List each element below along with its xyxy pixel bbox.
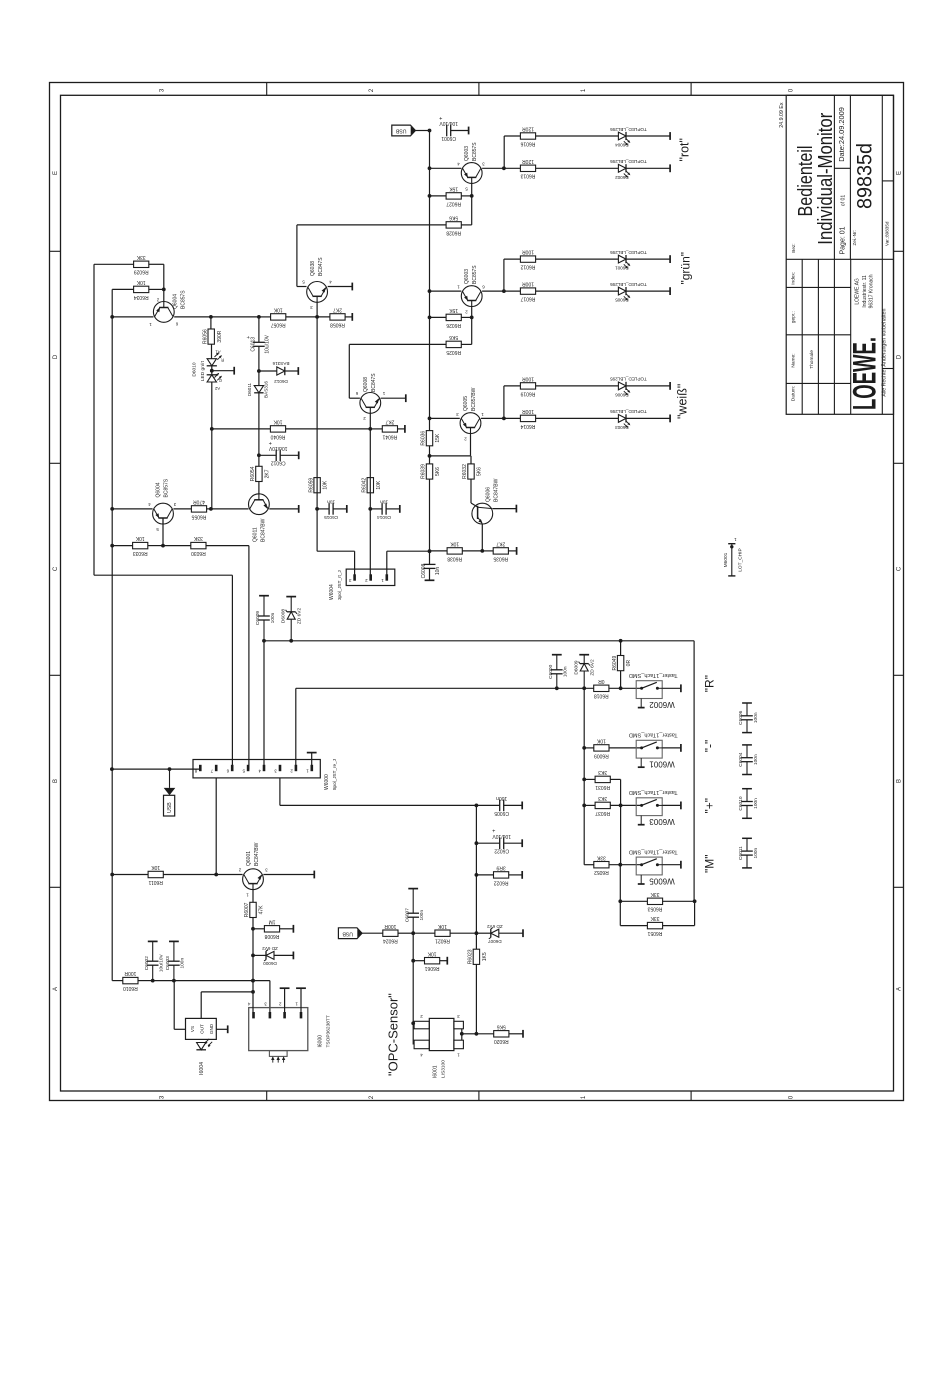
svg-text:D6002: D6002: [615, 175, 629, 180]
svg-text:D6004: D6004: [615, 143, 629, 148]
svg-text:W6002: W6002: [649, 700, 675, 709]
capacitor C6002 (10u/10V): [144, 941, 165, 980]
wire: [252, 955, 254, 980]
wire: [211, 366, 213, 375]
junction: [411, 931, 415, 935]
wire: [333, 508, 347, 510]
svg-text:D6012: D6012: [274, 379, 288, 384]
svg-text:C6009: C6009: [255, 611, 261, 625]
ground: [669, 287, 671, 295]
wire: [626, 290, 670, 292]
svg-text:LIS3100: LIS3100: [441, 1060, 447, 1078]
svg-text:BAS316: BAS316: [264, 381, 269, 398]
junction: [209, 507, 213, 511]
net flag USB: [338, 928, 362, 939]
junction: [110, 544, 114, 548]
svg-text:D6010: D6010: [191, 362, 197, 376]
LED D6004 (TOPLED_LBL295): [610, 127, 647, 148]
ground: [259, 595, 269, 597]
svg-text:10n: 10n: [435, 567, 441, 576]
wire: [440, 960, 448, 962]
svg-text:100R: 100R: [124, 970, 136, 976]
svg-text:"R": "R": [703, 675, 717, 692]
wire: [536, 385, 619, 387]
svg-text:LED gn/rt: LED gn/rt: [200, 360, 206, 381]
wire: [451, 130, 469, 132]
wire: [504, 385, 521, 387]
svg-text:100n: 100n: [753, 754, 759, 765]
wire Q6008 base: [369, 413, 371, 429]
svg-text:GND: GND: [209, 1023, 214, 1034]
capacitor C6009 (100n): [255, 596, 276, 641]
svg-text:5K6: 5K6: [435, 467, 441, 476]
svg-text:Q6006: Q6006: [486, 487, 492, 502]
wire pin2 net vertical: [369, 429, 371, 579]
wire Q6038 base: [316, 303, 318, 317]
ground: [521, 802, 523, 810]
wire: [206, 545, 249, 547]
svg-text:TOPLED_LBL295: TOPLED_LBL295: [610, 159, 647, 164]
resistor R6030 (33K): [191, 535, 206, 556]
svg-text:Bedienteil: Bedienteil: [795, 146, 817, 217]
wire Q6003 emitter: [430, 167, 462, 169]
svg-text:+: +: [246, 336, 252, 339]
ground: [680, 744, 682, 752]
wire: [536, 258, 619, 260]
resistor R6035 (2K7): [493, 541, 508, 562]
junction: [502, 166, 506, 170]
resistor R6020 (5K6): [494, 1023, 509, 1044]
wire: [258, 393, 260, 456]
svg-text:R6016: R6016: [520, 140, 535, 146]
wire D6010 to row2: [211, 382, 213, 429]
wire: [297, 286, 307, 288]
svg-text:100n: 100n: [496, 795, 507, 801]
svg-text:470R: 470R: [193, 499, 205, 505]
diode D6012 (BAS316): [272, 361, 289, 384]
svg-text:100R: 100R: [384, 923, 396, 929]
wire: [258, 346, 260, 371]
wire: [504, 135, 520, 137]
wire rail1 (R6029 net): [93, 264, 95, 575]
svg-text:5K6: 5K6: [449, 214, 458, 220]
wire W6000 pin4 riser: [263, 641, 265, 770]
svg-text:96317 Kronach: 96317 Kronach: [869, 274, 875, 308]
wire: [163, 545, 191, 547]
junction: [162, 288, 166, 292]
wire: [482, 167, 504, 169]
capacitor C6006 (100n): [738, 703, 759, 733]
svg-text:2K7: 2K7: [385, 419, 394, 425]
ground: [292, 925, 294, 933]
svg-text:C6000: C6000: [548, 664, 554, 678]
svg-text:Q6003: Q6003: [464, 269, 470, 284]
junction: [257, 315, 261, 319]
wire: [470, 446, 472, 456]
resistor R6018 (0R): [594, 678, 609, 699]
svg-text:R6057: R6057: [271, 321, 286, 327]
wire: [476, 932, 490, 934]
ground: [399, 505, 401, 513]
capacitor C6022 (10u/10V): [492, 827, 511, 853]
svg-text:+: +: [492, 827, 495, 833]
wire I6001 right pins: [461, 1029, 463, 1040]
svg-text:10K: 10K: [596, 738, 606, 744]
ground: [521, 839, 523, 847]
wire: [362, 932, 383, 934]
wire IC6000 pin1 stub: [300, 988, 302, 1012]
wire R6009 row: [584, 747, 594, 749]
junction: [460, 1032, 464, 1036]
wire long vertical to R6053: [693, 641, 695, 902]
ground: [346, 505, 348, 513]
wire Q6008 collector riser: [348, 344, 350, 398]
wire: [94, 263, 134, 265]
wire: [211, 316, 259, 318]
svg-text:R6054: R6054: [250, 466, 256, 481]
wire: [610, 778, 620, 780]
wire W6000 pin2 riser: [295, 688, 297, 769]
net flag USB (keypad): [164, 769, 176, 816]
svg-text:+: +: [269, 439, 272, 445]
wire: [476, 842, 499, 844]
svg-text:TOPLED_LBL295: TOPLED_LBL295: [610, 250, 647, 255]
svg-text:1M: 1M: [269, 918, 276, 924]
svg-text:R6042: R6042: [362, 478, 368, 493]
svg-text:Taster_1Tach_SMD: Taster_1Tach_SMD: [629, 732, 678, 738]
junction: [210, 427, 214, 431]
wire: [253, 928, 264, 930]
svg-text:R6021: R6021: [435, 938, 450, 944]
svg-text:120R: 120R: [522, 158, 534, 164]
svg-text:R6038: R6038: [447, 555, 462, 561]
resistor R6042 (10K): [362, 478, 382, 493]
svg-text:R6056: R6056: [202, 329, 208, 344]
capacitor C6004 (100n): [738, 745, 759, 775]
wire R6049 bottom: [620, 671, 622, 689]
transistor Q6003 (BC857S): [457, 142, 485, 192]
ground: [405, 394, 407, 402]
wire Q6003b emitter: [430, 290, 462, 292]
wire: [536, 417, 619, 419]
wire Q6038 emitter: [328, 286, 353, 288]
svg-text:USB: USB: [342, 930, 353, 936]
svg-text:A: A: [897, 987, 903, 991]
wire: [174, 1028, 185, 1030]
junction: [428, 166, 432, 170]
svg-text:LOEWE.: LOEWE.: [847, 337, 883, 410]
ground: [148, 940, 158, 942]
wire: [626, 258, 670, 260]
svg-text:C: C: [53, 566, 59, 571]
svg-text:C6022: C6022: [494, 848, 509, 854]
wire: [504, 290, 521, 292]
wire collector riser rot: [503, 136, 505, 168]
wire to R6053 node: [619, 865, 621, 902]
svg-text:I6001: I6001: [433, 1065, 439, 1078]
ground: [298, 505, 300, 513]
wire: [471, 317, 473, 344]
resistor R6034 (10K): [134, 279, 149, 300]
ground: [669, 382, 671, 390]
wire Q6006 collector: [493, 508, 517, 510]
svg-text:VS: VS: [190, 1026, 195, 1032]
wire: [509, 1033, 523, 1035]
svg-text:Zei.-Nr:: Zei.-Nr:: [852, 230, 857, 245]
svg-text:Individual-Monitor: Individual-Monitor: [815, 112, 837, 244]
wire: [252, 918, 254, 929]
svg-text:Q6008: Q6008: [363, 377, 369, 392]
wire: [476, 874, 493, 876]
resistor R6029 (33K): [134, 254, 149, 275]
svg-text:B: B: [897, 779, 903, 783]
svg-text:3R9: 3R9: [496, 865, 505, 871]
junction: [315, 315, 319, 319]
svg-text:5K6: 5K6: [497, 1023, 506, 1029]
wire: [462, 1033, 477, 1035]
resistor R6017 (100R): [520, 281, 535, 302]
wire: [112, 545, 132, 547]
svg-text:R6018: R6018: [594, 693, 609, 699]
capacitor C6011 (100n): [738, 838, 759, 868]
wire W6000 pin1 stub: [311, 753, 313, 770]
svg-text:10K: 10K: [437, 923, 447, 929]
wire: [499, 932, 523, 934]
svg-text:33K: 33K: [650, 915, 660, 921]
junction: [257, 369, 261, 373]
svg-text:R6026: R6026: [446, 322, 461, 328]
svg-text:C6002: C6002: [144, 956, 150, 970]
svg-text:100n: 100n: [270, 612, 276, 623]
junction: [475, 931, 479, 935]
svg-text:W6000: W6000: [324, 774, 330, 790]
capacitor C6013: [246, 334, 270, 353]
svg-text:C6004: C6004: [738, 752, 744, 766]
wire IC6000 pin4 stub: [252, 981, 254, 1012]
wire R6051 loop left: [619, 901, 621, 925]
junction: [582, 746, 586, 750]
svg-text:R6019: R6019: [520, 390, 535, 396]
svg-text:R6035: R6035: [493, 555, 508, 561]
IC I6004 (light sensor): [186, 1018, 217, 1039]
svg-text:R6030: R6030: [191, 550, 206, 556]
wire: [504, 258, 521, 260]
wire: [430, 316, 447, 318]
capacitor C6015 (10n): [324, 499, 338, 520]
photodiode of I6004: [196, 1039, 212, 1075]
wire: [626, 417, 670, 419]
svg-text:100n: 100n: [753, 847, 759, 858]
wire R6031 to W6003 node: [620, 779, 622, 805]
transistor Q6006 (BC847BW): [472, 478, 500, 524]
ground: [404, 425, 406, 433]
capacitor C6010 (100n): [738, 789, 759, 819]
wire: [662, 864, 681, 866]
svg-text:C6001: C6001: [441, 135, 456, 141]
svg-text:100n: 100n: [753, 798, 759, 809]
wire Q6006 base: [470, 479, 472, 503]
resistor R6024 (100R): [383, 923, 398, 944]
zener diode D6000 (ZD 6V2): [262, 946, 278, 966]
svg-text:BC857S: BC857S: [181, 290, 187, 309]
svg-text:TOPLED_LBL295: TOPLED_LBL295: [610, 377, 647, 382]
svg-text:R6027: R6027: [446, 200, 461, 206]
junction: [368, 427, 372, 431]
svg-text:TOPLED_LBL295: TOPLED_LBL295: [610, 282, 647, 287]
wire: [504, 167, 521, 169]
svg-text:A1: A1: [215, 350, 221, 355]
svg-text:100R: 100R: [522, 249, 534, 255]
resistor R6010 (100R): [123, 970, 138, 991]
transistor Q6004 (BC857S): [149, 290, 187, 327]
wire: [662, 747, 681, 749]
svg-text:Thomale: Thomale: [809, 350, 815, 369]
svg-text:G: G: [219, 378, 222, 383]
svg-text:C6010: C6010: [738, 796, 744, 810]
transistor Q6038 (BC847S): [302, 257, 332, 310]
wire rail1 bend: [94, 574, 232, 576]
svg-text:W6003: W6003: [649, 817, 675, 826]
svg-text:15K: 15K: [449, 185, 459, 191]
wire: [259, 370, 277, 372]
svg-text:R6014: R6014: [520, 423, 535, 429]
svg-text:10K: 10K: [136, 279, 146, 285]
wire W6000 pin7 down: [215, 778, 217, 875]
ground: [297, 367, 299, 375]
wire: [387, 550, 430, 552]
junction: [582, 686, 586, 690]
wire: [148, 545, 163, 547]
svg-text:C: C: [897, 566, 903, 571]
ground: [669, 132, 671, 140]
ground: [298, 451, 300, 459]
svg-text:47K: 47K: [259, 905, 265, 915]
resistor R6039 (5K6): [421, 464, 441, 479]
resistor R6022 (3R9): [494, 865, 509, 886]
svg-text:Bez:: Bez:: [791, 243, 796, 252]
wire: [253, 954, 266, 956]
svg-text:"weiß": "weiß": [676, 384, 690, 419]
svg-text:I6004: I6004: [199, 1062, 205, 1075]
svg-text:R6034: R6034: [134, 294, 149, 300]
svg-text:Var.:89835d: Var.:89835d: [884, 221, 889, 246]
wire: [461, 224, 471, 226]
junction: [470, 194, 474, 198]
svg-text:100R: 100R: [522, 408, 534, 414]
wire: [280, 454, 299, 456]
wire rot control (crosses bus): [297, 224, 446, 226]
ground: [296, 987, 306, 989]
svg-text:Taster_1Tach_SMD: Taster_1Tach_SMD: [629, 672, 678, 678]
svg-text:10K: 10K: [135, 535, 145, 541]
wire R6051 loop right: [694, 901, 696, 925]
resistor R6023 (1K5): [468, 949, 488, 964]
LED D6010 (LED gn/rt, red half): [207, 350, 224, 366]
wire R6023 to I6001: [475, 964, 477, 1033]
junction: [480, 549, 484, 553]
svg-text:10K: 10K: [376, 480, 382, 490]
wire: [252, 929, 254, 956]
svg-text:BC857S: BC857S: [472, 265, 478, 284]
svg-text:120R: 120R: [522, 126, 534, 132]
svg-text:D6007: D6007: [488, 939, 502, 944]
svg-text:C6011: C6011: [738, 846, 744, 860]
svg-text:BAS316: BAS316: [272, 361, 289, 366]
svg-text:ZD 6V2: ZD 6V2: [262, 946, 278, 951]
wire: [259, 454, 276, 456]
junction: [619, 639, 623, 643]
junction: [289, 639, 293, 643]
resistor R6051 (33K): [647, 915, 662, 936]
svg-text:5K6: 5K6: [449, 334, 458, 340]
resistor R6014 (100R): [520, 408, 535, 429]
svg-text:R6055: R6055: [191, 513, 206, 519]
ground: [233, 367, 235, 375]
wire: [610, 804, 642, 806]
svg-text:100R: 100R: [522, 281, 534, 287]
wire: [504, 417, 521, 419]
svg-text:Index:: Index:: [791, 272, 797, 285]
junction: [618, 863, 622, 867]
wire R6037 row: [584, 804, 595, 806]
switch W6002 (Taster_1Tach_SMD): [629, 672, 678, 709]
wire: [430, 550, 448, 552]
svg-text:R6010: R6010: [123, 985, 138, 991]
wire: [201, 991, 253, 993]
wire bus R6036-R6039: [429, 446, 431, 464]
svg-text:ZD 6V2: ZD 6V2: [487, 924, 503, 929]
junction: [411, 1021, 415, 1025]
switch W6001 (Taster_1Tach_SMD): [629, 732, 678, 769]
svg-text:Q6004: Q6004: [173, 294, 179, 309]
wire rail2 (R6034 net): [111, 289, 113, 980]
ground: [669, 415, 671, 423]
svg-text:E: E: [897, 171, 903, 175]
junction: [151, 979, 155, 983]
junction: [110, 315, 114, 319]
svg-text:W6005: W6005: [649, 876, 675, 885]
wire Q6008 emitter: [381, 397, 406, 399]
resistor R6036 (15K): [421, 431, 441, 446]
resistor R6055 (470R): [191, 499, 206, 520]
wire supply row: [112, 980, 123, 982]
frame row/column labels: [53, 88, 903, 1099]
wire: [482, 550, 493, 552]
ground: [669, 255, 671, 263]
junction: [257, 453, 261, 457]
resistor R6031 (3K3): [595, 769, 610, 790]
svg-text:+: +: [439, 115, 442, 121]
junction: [693, 899, 697, 903]
svg-text:R6013: R6013: [520, 173, 535, 179]
resistor R6032 (5K6): [462, 464, 482, 479]
svg-text:OUT: OUT: [200, 1024, 205, 1034]
wire C6005 column: [475, 805, 477, 949]
wire: [398, 932, 413, 934]
wire: [354, 551, 356, 578]
resistor R6058 (2K7): [330, 307, 345, 328]
resistor R6054 (2K7): [250, 466, 270, 481]
wire Q6001 base: [252, 890, 254, 903]
transistor Q6005 (BC857BW): [456, 387, 484, 441]
wire row2-row3 link: [211, 429, 213, 509]
svg-text:10n: 10n: [380, 499, 388, 505]
svg-text:LOEWE AG: LOEWE AG: [855, 278, 861, 305]
wire bus R6036 top stub: [429, 418, 431, 430]
LED D6003 (TOPLED_LBL295): [610, 409, 647, 430]
wire Q6011 emitter: [269, 508, 298, 510]
svg-text:R6036: R6036: [421, 431, 427, 446]
